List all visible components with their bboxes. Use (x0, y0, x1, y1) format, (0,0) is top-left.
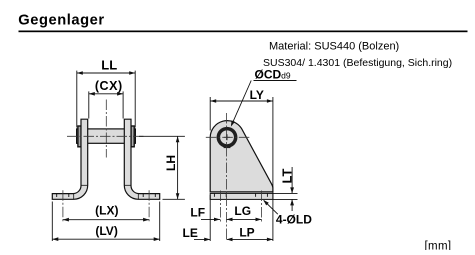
dimension LF (209, 195, 211, 241)
foot hole edges (side view) (213, 193, 215, 196)
svg-text:LH: LH (164, 155, 178, 171)
dimension (LX) (63, 219, 149, 221)
dimension LE (194, 238, 210, 240)
bracket plate (side view) (210, 121, 273, 192)
rear foot hole centerline (side view) (261, 191, 263, 223)
bend tangent line across left foot (73, 194, 75, 200)
dimension LH (139, 135, 185, 137)
svg-text:LF: LF (190, 206, 205, 220)
pin Bolzen (front view) (77, 129, 136, 143)
svg-text:LP: LP (239, 225, 254, 239)
svg-text:LL: LL (101, 58, 117, 73)
svg-text:Material: SUS440 (Bolzen): Material: SUS440 (Bolzen) (269, 41, 399, 53)
svg-text:LE: LE (183, 226, 198, 240)
svg-text:LY: LY (250, 88, 264, 102)
left foot hole centerline (62, 190, 64, 222)
foot (side view) (210, 193, 273, 199)
svg-text:LG: LG (234, 204, 251, 218)
bend tangent line across right leg (124, 184, 131, 186)
bend tangent line across right foot (137, 194, 139, 200)
mounting hole edges right foot (142, 194, 144, 197)
svg-text:LT: LT (279, 168, 294, 183)
dimension LG (227, 218, 262, 220)
snap ring gap lug (side view) (224, 145, 231, 148)
front foot hole centerline (side view) (219, 191, 221, 223)
dimension LT (273, 192, 298, 194)
pin horizontal centerline front view (67, 135, 145, 137)
svg-text:4-ØLD: 4-ØLD (276, 213, 312, 227)
right foot hole centerline (148, 190, 150, 222)
svg-text:ØCDd9: ØCDd9 (255, 68, 291, 82)
svg-text:Gegenlager: Gegenlager (18, 12, 104, 28)
mounting hole edges left foot (56, 194, 58, 197)
pin hole with snap ring (side view) (217, 127, 238, 148)
svg-text:(LV): (LV) (95, 224, 117, 238)
dimension (CX) (88, 91, 90, 118)
bracket right leg and foot (front view) (124, 119, 159, 199)
svg-text:(LX): (LX) (95, 204, 118, 218)
bend tangent line across left leg (81, 184, 88, 186)
svg-text:SUS304/ 1.4301 (Befestigung, S: SUS304/ 1.4301 (Befestigung, Sich.ring) (263, 57, 452, 69)
dimension LL (76, 71, 78, 128)
hole vertical centerline (side view) (226, 113, 228, 241)
dimension LP (227, 238, 273, 240)
dimension LY (209, 97, 211, 131)
vertical centerline front view (105, 100, 107, 158)
svg-text:(CX): (CX) (95, 79, 123, 93)
dimension (LV) (51, 202, 53, 242)
title underline rule (19, 31, 468, 33)
snap ring left (Sicherungsring) (78, 126, 81, 147)
hole horizontal centerline (side view) (206, 136, 250, 138)
svg-text:[mm]: [mm] (425, 240, 452, 250)
bracket left leg and foot (front view) (52, 119, 87, 199)
snap ring right (Sicherungsring) (131, 126, 134, 147)
hole center mark cross (224, 136, 230, 138)
